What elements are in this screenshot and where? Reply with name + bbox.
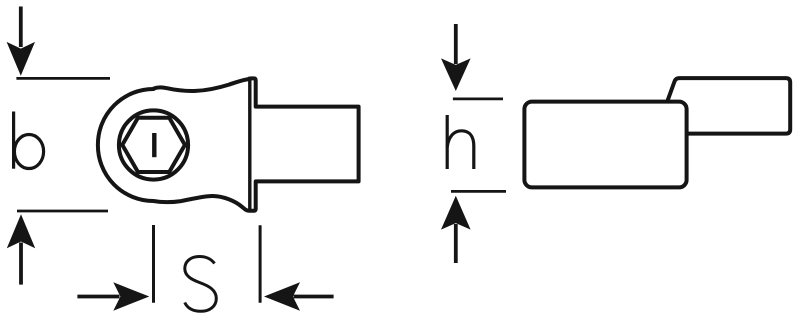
side view rear block (small rounded rect, drawn first so it is occluded) [668, 78, 791, 134]
slot mark inside hexagon [152, 133, 156, 157]
dimension S right arrow shaft [294, 295, 334, 299]
dimension b top arrowhead [7, 42, 35, 76]
label S (letter drawn as strokes) [185, 257, 217, 312]
collar inner line [248, 79, 251, 210]
inner circle of ring head [119, 110, 188, 179]
dimension S left extension line [152, 225, 155, 303]
hexagon socket [122, 118, 185, 172]
dimension h top arrowhead [441, 58, 471, 91]
dimension b top arrow shaft [19, 7, 23, 48]
head outline (left view) [98, 78, 359, 210]
dimension b bottom tick line [17, 210, 108, 213]
dimension S right arrowhead [264, 282, 300, 310]
dimension h bottom arrow shaft [454, 224, 458, 263]
dimension b bottom arrow shaft [19, 243, 23, 285]
dimension h top tick line [453, 98, 503, 101]
dimension h bottom tick line [451, 190, 506, 193]
label h (letter drawn as strokes) [447, 115, 474, 169]
dimension S right extension line [259, 225, 262, 302]
dimension h bottom arrowhead [441, 196, 471, 230]
side view main body (rounded rect) [524, 102, 686, 188]
label b (letter drawn as strokes) [14, 112, 44, 169]
dimension b top tick line [16, 77, 110, 80]
dimension h top arrow shaft [454, 24, 458, 64]
dimension S left arrow shaft [77, 295, 119, 299]
dimension b bottom arrowhead [7, 214, 35, 248]
dimension S left arrowhead [113, 282, 149, 310]
